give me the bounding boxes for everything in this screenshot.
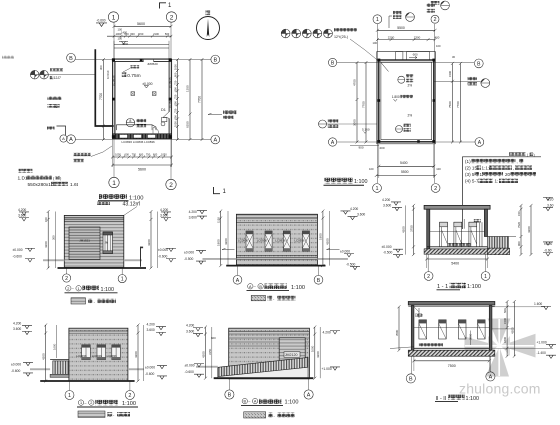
canopy slab above top wall [114, 41, 169, 59]
svg-text:4200: 4200 [224, 238, 228, 245]
svg-text:B: B [213, 58, 217, 64]
notes border [463, 157, 542, 229]
svg-text:6350: 6350 [186, 121, 190, 128]
door D1 swing [163, 112, 169, 118]
svg-text:1:100: 1:100 [466, 396, 480, 402]
notes block bottom-left [18, 169, 79, 188]
svg-text:5.160: 5.160 [362, 128, 370, 132]
svg-text:1050: 1050 [161, 153, 167, 157]
stall note text [448, 243, 471, 246]
svg-text:B: B [228, 393, 232, 399]
floor drain left [131, 92, 135, 96]
level flag -0.600 top-left [96, 19, 107, 27]
svg-text:1150: 1150 [138, 32, 144, 36]
svg-text:3800: 3800 [469, 333, 473, 340]
fixture 1 [440, 222, 448, 247]
svg-text:1: 1 [78, 287, 80, 291]
grid bubble 1 bottom [373, 184, 382, 193]
svg-text:1050: 1050 [173, 121, 177, 127]
ramp railing [218, 357, 308, 376]
legend swatch [244, 412, 295, 418]
leader distribution box [208, 111, 236, 119]
svg-text:1: 1 [80, 401, 82, 405]
svg-text:3.600: 3.600 [147, 328, 155, 332]
grid bubble 1 [481, 255, 490, 281]
elevation body [69, 328, 128, 381]
svg-text:4200: 4200 [44, 241, 48, 248]
plinth gray bands [43, 259, 142, 261]
svg-text:5500: 5500 [397, 26, 405, 30]
svg-text:1350: 1350 [186, 85, 190, 92]
svg-text:±0.000: ±0.000 [184, 250, 194, 254]
left level flags [11, 321, 33, 376]
svg-text:,: , [513, 165, 514, 170]
left level flags [184, 210, 207, 264]
svg-text:A: A [236, 278, 240, 284]
svg-text:600: 600 [173, 87, 177, 92]
retaining wall thick L [95, 49, 113, 126]
svg-text:LC0936: LC0936 [107, 354, 118, 358]
svg-text:100: 100 [369, 167, 374, 171]
svg-text:±0.000: ±0.000 [11, 362, 21, 366]
right dim chain [134, 324, 144, 383]
wall leader arrows [222, 248, 340, 249]
title elev A-B [247, 284, 306, 291]
fixture 4 [478, 320, 486, 339]
svg-text:±0.00: ±0.00 [544, 242, 552, 246]
grid bubble A left [328, 138, 336, 146]
canopy axis bubble right [435, 77, 490, 88]
svg-text:1800: 1800 [503, 337, 507, 343]
parapet band [229, 332, 310, 347]
right level flags [322, 331, 341, 371]
svg-text:1150: 1150 [217, 217, 221, 223]
leader floor drain note [74, 146, 113, 162]
grid bubble A left [67, 135, 76, 144]
svg-text:2300: 2300 [414, 36, 421, 40]
rain outlet bubble [319, 119, 377, 128]
svg-text:D1: D1 [161, 108, 166, 112]
canopy rects top [396, 52, 430, 60]
dim line 5600 top [113, 22, 173, 28]
right level flags [340, 207, 365, 270]
grid bubble B right [211, 55, 220, 64]
svg-text:4.200: 4.200 [160, 208, 168, 212]
svg-text:1500: 1500 [448, 71, 452, 77]
svg-text:600: 600 [173, 115, 177, 120]
washbasin rect [161, 118, 167, 126]
svg-text:-0.60: -0.60 [544, 249, 552, 253]
svg-text:,: , [517, 159, 518, 164]
fixture 2 [439, 320, 447, 339]
grid bubble 1 top [108, 12, 118, 22]
svg-text:1:100: 1:100 [354, 179, 368, 185]
svg-text:2: 2 [67, 287, 69, 291]
grid bubble B [225, 378, 234, 399]
svg-text:+1.000: +1.000 [537, 340, 547, 344]
svg-text:2: 2 [170, 14, 174, 21]
svg-text:B: B [69, 56, 73, 62]
stall platform [117, 125, 159, 134]
grid bubble B right [474, 59, 483, 68]
manhole bubble upper [398, 74, 413, 87]
svg-text:4.200: 4.200 [18, 208, 26, 212]
svg-text:A: A [213, 138, 217, 144]
svg-text:150: 150 [517, 211, 521, 216]
svg-text:100: 100 [436, 44, 441, 48]
svg-text:4200: 4200 [42, 353, 46, 360]
svg-text:100: 100 [373, 41, 378, 45]
svg-text:900: 900 [517, 241, 521, 246]
note line 1 [465, 159, 523, 164]
svg-text:3150: 3150 [208, 348, 212, 355]
grid bubble 2 top [166, 12, 176, 22]
axis A horizontal [337, 141, 476, 143]
grid bubble A right [211, 135, 220, 144]
left dim chains [201, 326, 216, 380]
plinth gray bands [30, 368, 144, 370]
parapet detail bubble top-right [431, 1, 450, 10]
wall bottom band hatched [113, 134, 172, 139]
ramp ground [218, 367, 308, 378]
railing note with bracket [47, 126, 67, 142]
svg-text:500: 500 [165, 32, 170, 36]
elevation body [236, 214, 317, 264]
svg-text:2: 2 [128, 393, 131, 399]
window 1 [246, 231, 253, 251]
svg-text:1.6t: 1.6t [70, 182, 79, 188]
svg-text:7700: 7700 [456, 101, 460, 108]
svg-text:3.600: 3.600 [13, 327, 21, 331]
wall top [113, 59, 172, 62]
window labels [238, 238, 305, 242]
title elev 2-1 [65, 286, 118, 293]
svg-text:2: 2 [65, 276, 68, 282]
svg-text:4.200: 4.200 [323, 331, 331, 335]
svg-text:100: 100 [436, 167, 441, 171]
svg-text:1:100: 1:100 [122, 401, 136, 407]
parapet band [69, 331, 128, 333]
axis B horizontal [337, 62, 475, 64]
svg-text:±0.000: ±0.000 [340, 250, 350, 254]
svg-text:750: 750 [173, 80, 177, 85]
stair annex left [50, 360, 69, 378]
svg-text:1:100: 1:100 [285, 400, 299, 406]
svg-text:4.200: 4.200 [13, 321, 21, 325]
parapet detail bubble mid [389, 11, 414, 28]
svg-text:A: A [249, 285, 252, 289]
left dim chain [44, 210, 56, 270]
ground line [58, 267, 147, 269]
bottom dim 5400 [377, 144, 435, 178]
title section II-II [435, 395, 479, 402]
right dim chain 1 [173, 58, 179, 141]
svg-text:4.200: 4.200 [186, 324, 194, 328]
svg-text:500: 500 [503, 308, 507, 313]
stall note [390, 343, 443, 348]
cut leader [464, 219, 481, 229]
svg-text:600: 600 [130, 32, 135, 36]
svg-text:2: 2 [427, 274, 430, 280]
svg-text:1:: 1: [495, 179, 499, 184]
right dim chain 2 [510, 300, 516, 358]
roof slab [408, 302, 495, 307]
svg-text:1: 1 [112, 14, 116, 21]
flag -500 in canopy [119, 41, 128, 45]
svg-text:B: B [244, 400, 247, 404]
left wall [427, 209, 430, 249]
svg-text:3750: 3750 [409, 225, 413, 232]
wall left [113, 59, 116, 139]
svg-text:±0.000: ±0.000 [13, 248, 23, 252]
svg-text:7500: 7500 [448, 101, 452, 108]
bottom dim 7500 [412, 356, 490, 371]
grid bubble 2 top [427, 3, 440, 23]
svg-text:4200: 4200 [316, 351, 320, 358]
door right [480, 222, 482, 247]
svg-text:100: 100 [118, 37, 123, 41]
svg-text:2: 2 [434, 186, 437, 192]
svg-text:7700: 7700 [362, 101, 366, 108]
bottom dim chain [111, 139, 173, 167]
svg-text:-0.600: -0.600 [97, 19, 106, 23]
svg-text:3.600: 3.600 [189, 215, 197, 219]
svg-text:3.600: 3.600 [383, 203, 391, 207]
svg-text:4700: 4700 [353, 79, 357, 86]
svg-text:7500: 7500 [448, 364, 456, 368]
svg-text:4.200: 4.200 [189, 210, 197, 214]
svg-text:1000: 1000 [311, 345, 315, 352]
svg-text:-0.600: -0.600 [13, 255, 23, 259]
svg-text:7700: 7700 [99, 93, 103, 100]
roof level text [392, 95, 413, 102]
window 3 [283, 231, 290, 251]
svg-text:200: 200 [380, 146, 385, 150]
svg-text:2: 2 [433, 17, 436, 23]
ground line [214, 377, 314, 379]
right level flags [158, 208, 176, 262]
svg-text:1:100: 1:100 [129, 196, 144, 202]
svg-text:2200: 2200 [388, 36, 395, 40]
window 4 [302, 231, 309, 251]
svg-text:): ) [534, 153, 535, 157]
svg-text:2%: 2% [408, 84, 413, 88]
svg-text:±0.000: ±0.000 [145, 365, 155, 369]
grid bubble 2 bottom [166, 179, 176, 189]
railing detail bubbles pair [30, 70, 95, 79]
svg-text:LC0936: LC0936 [294, 238, 305, 242]
svg-text:LC0936: LC0936 [275, 238, 286, 242]
svg-text:12J7: 12J7 [54, 76, 61, 80]
svg-text:3.600: 3.600 [160, 214, 168, 218]
right dim chain 2 [527, 204, 533, 256]
interior text slope 0.75m [122, 72, 141, 79]
svg-text:A: A [307, 393, 311, 399]
title floor plan [97, 194, 144, 208]
svg-text:-0.600: -0.600 [158, 255, 168, 259]
svg-text:-1.400: -1.400 [537, 351, 547, 355]
window 1 [82, 345, 91, 360]
svg-text:LC0936: LC0936 [112, 75, 116, 86]
stair ground hatch [488, 237, 517, 255]
svg-text:300: 300 [52, 235, 56, 240]
note line 4 [465, 179, 518, 184]
svg-text:JM0520: JM0520 [147, 62, 158, 66]
svg-text:A: A [69, 137, 73, 143]
grid bubble A [304, 378, 313, 399]
grid bubble B left [67, 53, 76, 62]
right dim chain 1 [517, 204, 523, 256]
svg-text:±0.000: ±0.000 [382, 245, 392, 249]
svg-text:LC0936: LC0936 [92, 354, 103, 358]
roof slab [424, 205, 490, 209]
plinth gray bands [203, 258, 348, 260]
section mark 1 bottom [214, 187, 227, 195]
svg-text:LC0836 LC0836 LC0836: LC0836 LC0836 LC0836 [122, 140, 156, 144]
detail bubble H with text [126, 118, 146, 127]
svg-text:3.600: 3.600 [357, 212, 365, 216]
legend swatch [71, 298, 116, 304]
wall rect roof [379, 60, 434, 142]
svg-text:II - II: II - II [436, 396, 447, 402]
ground line [40, 380, 134, 382]
grid bubble B [314, 266, 323, 285]
svg-text:750: 750 [173, 94, 177, 99]
svg-text:-0.600: -0.600 [145, 372, 155, 376]
recessed panel [69, 227, 100, 260]
svg-text:3580: 3580 [395, 329, 399, 336]
left dim chain [99, 58, 105, 141]
svg-text:600: 600 [173, 101, 177, 106]
svg-text:LC0936: LC0936 [168, 97, 172, 108]
svg-text:1500: 1500 [503, 318, 507, 324]
dim 5500 top [376, 26, 437, 32]
svg-text:600: 600 [153, 153, 158, 157]
parapet band [236, 214, 317, 222]
svg-text:3000: 3000 [353, 119, 357, 126]
svg-text:1: 1 [375, 186, 378, 192]
mid dim leader [469, 331, 473, 346]
svg-text:zhulong.com: zhulong.com [459, 381, 541, 397]
left level flags [185, 324, 205, 378]
svg-text:1050: 1050 [173, 64, 177, 70]
svg-text:1400: 1400 [121, 31, 127, 35]
left level flags [13, 208, 36, 262]
left dim chain 1 [353, 61, 359, 144]
svg-text:-0.600: -0.600 [185, 370, 195, 374]
flag pole [141, 247, 144, 267]
svg-text:1: 1 [68, 393, 71, 399]
svg-text:B: B [409, 376, 413, 382]
legend swatch [78, 411, 130, 417]
base bands [236, 255, 317, 259]
dim chain top row2 [373, 36, 441, 48]
svg-text:5500: 5500 [401, 170, 409, 174]
svg-text:5600: 5600 [138, 168, 146, 172]
axis line 2 vertical [170, 23, 172, 180]
rainpipe detail bubble row [281, 29, 332, 38]
right dim chain 1 [503, 300, 509, 358]
svg-text:-0.600: -0.600 [11, 369, 21, 373]
svg-text:JM2120: JM2120 [285, 353, 298, 357]
svg-text:1.800: 1.800 [392, 95, 400, 99]
ground line [226, 265, 325, 267]
axis line A horizontal [75, 139, 211, 141]
interior level mark 0.000 [142, 82, 152, 88]
svg-text:1: 1 [484, 274, 487, 280]
svg-text:1:100: 1:100 [467, 284, 481, 290]
svg-text:-500: -500 [412, 53, 418, 57]
svg-text:4200: 4200 [201, 351, 205, 358]
bottom dim 5500 [369, 167, 441, 177]
extension lines right [492, 307, 553, 349]
left dim chain [402, 204, 416, 256]
left level flags [382, 198, 404, 258]
left dim chain 2 [362, 61, 368, 144]
svg-text:2: 2 [169, 182, 173, 189]
right dim chains [311, 326, 321, 380]
right dim chain 3 [198, 58, 204, 141]
ramp railing text mid [48, 96, 62, 109]
plinth gray band [196, 366, 218, 368]
svg-text:1 - 1: 1 - 1 [437, 284, 448, 290]
svg-text:150: 150 [44, 217, 48, 222]
svg-text:600: 600 [173, 72, 177, 77]
svg-text:1800: 1800 [319, 233, 323, 240]
svg-text:2%: 2% [408, 114, 413, 118]
window 3 [112, 345, 121, 360]
svg-text:1:100: 1:100 [101, 287, 115, 293]
right dim chain 2 [452, 55, 462, 144]
grid bubble 1 [65, 381, 74, 400]
svg-text:4.200: 4.200 [147, 322, 155, 326]
title elev 1-2 [77, 400, 138, 407]
title elev B-A [241, 398, 299, 405]
svg-text:2100: 2100 [153, 32, 159, 36]
title roof plan [324, 178, 368, 185]
column squares roof [377, 59, 435, 143]
svg-text:(2) 15: (2) 15 [465, 165, 477, 170]
flag 5.160 [362, 128, 370, 134]
floor slab [408, 348, 495, 356]
dim chain top row2 [107, 32, 172, 38]
svg-text:7520: 7520 [517, 222, 521, 228]
svg-text:3.60: 3.60 [547, 203, 554, 207]
svg-text:4200: 4200 [134, 351, 138, 358]
north arrow [197, 11, 220, 40]
svg-text:7700: 7700 [198, 96, 202, 103]
fixture 3 [469, 222, 477, 247]
parapet coping band [64, 207, 137, 222]
column squares [112, 58, 172, 138]
grid bubble 2 [424, 255, 433, 281]
svg-text:750: 750 [146, 153, 151, 157]
grid bubble 2 [63, 268, 71, 282]
right dim chain [147, 210, 158, 270]
svg-text:A: A [489, 374, 493, 380]
svg-text:+1.000: +1.000 [322, 367, 332, 371]
svg-text:4200: 4200 [147, 239, 151, 246]
floor slab [424, 247, 493, 254]
svg-text:-0.500: -0.500 [346, 262, 356, 266]
partition rail [430, 230, 484, 232]
svg-text:1050: 1050 [115, 153, 121, 157]
svg-text:12Y(25-): 12Y(25-) [334, 35, 348, 39]
svg-text:1600: 1600 [53, 343, 57, 350]
window labels [77, 354, 118, 358]
svg-text:1:100: 1:100 [291, 285, 305, 291]
grid bubble 1 [118, 268, 126, 283]
